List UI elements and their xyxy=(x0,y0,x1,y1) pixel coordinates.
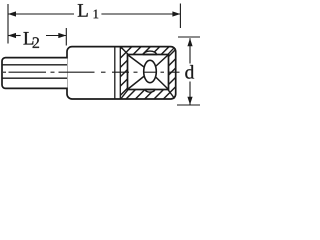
L2 dimension xyxy=(8,28,66,46)
hex flat lower xyxy=(3,77,68,79)
square recess diagonal BR xyxy=(150,72,168,90)
L1 left extension line xyxy=(7,4,9,44)
chamfer diagonal top-left xyxy=(121,47,128,54)
d top extension line xyxy=(178,36,200,38)
d dimension line upper segment xyxy=(189,38,191,63)
square drive opening xyxy=(128,55,169,90)
square recess diagonal BL xyxy=(128,72,150,90)
L1 right extension line xyxy=(179,4,181,29)
step line cylinder/square xyxy=(114,47,116,99)
hex bit outline xyxy=(2,58,68,89)
glyph 2 subscript of L2 label xyxy=(33,37,39,48)
L1 left arrowhead xyxy=(8,11,16,16)
L2 dimension line right segment xyxy=(46,35,66,37)
square recess diagonal TR xyxy=(150,55,168,72)
L2 dimension line left segment xyxy=(8,35,21,37)
d top arrowhead xyxy=(187,38,192,46)
chamfer diagonal bottom-left xyxy=(121,90,128,99)
hatched section frame xyxy=(120,47,175,100)
glyph d of d label xyxy=(185,65,194,79)
L2 left arrowhead xyxy=(8,33,16,38)
L2 right arrowhead xyxy=(58,33,66,38)
bottom detent bore dome xyxy=(145,90,155,93)
d bottom extension line xyxy=(177,104,200,106)
d dimension line lower segment xyxy=(189,82,191,105)
d dimension xyxy=(177,37,200,105)
glyph 1 subscript of L1 label xyxy=(94,10,99,19)
d bottom arrowhead xyxy=(187,97,192,105)
chamfer diagonal bottom-right xyxy=(168,90,175,99)
L1 dimension line left segment xyxy=(8,13,74,15)
center line xyxy=(3,71,180,73)
L1 dimension xyxy=(8,4,180,44)
square recess diagonal TL xyxy=(128,55,150,72)
glyph L of L2 label xyxy=(23,32,33,44)
L1 dimension line right segment xyxy=(101,13,180,15)
socket body outline xyxy=(67,47,176,99)
top detent bore dome xyxy=(144,51,157,54)
L2 right extension line xyxy=(65,28,67,46)
detent ball xyxy=(144,60,157,82)
glyph L of L1 label xyxy=(78,4,88,16)
chamfer diagonal top-right xyxy=(168,47,175,54)
L1 right arrowhead xyxy=(172,11,180,16)
section boundary line xyxy=(119,47,121,99)
hex flat upper xyxy=(3,64,68,66)
